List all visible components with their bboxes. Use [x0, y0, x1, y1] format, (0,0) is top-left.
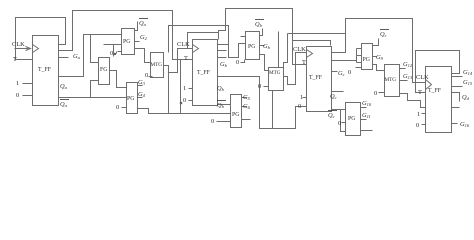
Peres gate PG2: [127, 83, 138, 114]
wire const1 input FF4: [422, 113, 426, 115]
wire branch to FG top input: [91, 35, 99, 63]
wire FF2 garbage stub: [218, 57, 227, 59]
svg-text:Qa: Qa: [60, 83, 68, 90]
wire FF3 out to PG6 mid: [341, 110, 346, 132]
svg-text:0: 0: [298, 103, 301, 110]
svg-text:FG: FG: [100, 67, 107, 73]
svg-text:Qa: Qa: [139, 20, 147, 27]
svg-text:T_FF: T_FF: [428, 88, 442, 94]
svg-text:Qa: Qa: [60, 101, 68, 108]
svg-text:T: T: [13, 56, 17, 63]
svg-text:PG: PG: [232, 112, 239, 118]
svg-text:0: 0: [110, 50, 113, 57]
Peres gate PG3: [246, 32, 260, 60]
wire FF2 T branch down to run: [180, 60, 182, 114]
wire FF2 Q long run to FF3 zero: [218, 77, 307, 129]
overline Qc bar: [328, 110, 337, 112]
svg-text:Gb: Gb: [263, 43, 271, 50]
svg-text:Qb: Qb: [217, 102, 225, 109]
svg-text:Gb: Gb: [220, 61, 228, 68]
wire FF3 to PG5 rail: [332, 49, 362, 63]
wire FF4 Q stub: [452, 93, 460, 108]
svg-text:G16: G16: [460, 121, 470, 128]
svg-text:Qd: Qd: [462, 94, 470, 101]
MTG gate MTG1: [151, 53, 164, 78]
svg-text:G4: G4: [138, 91, 146, 98]
svg-text:G12: G12: [403, 61, 413, 68]
wire PG1 out to Qbar label: [135, 22, 138, 31]
overline Qb bar: [217, 100, 226, 102]
overline PG1 Qbar: [139, 18, 148, 20]
wire const1 input FF2: [189, 88, 193, 90]
wire PG4 outputs stubs: [242, 98, 247, 107]
clock wedge U1: [33, 45, 39, 53]
wire loop top C inner: [293, 41, 331, 46]
wire PG5 out Qbar: [373, 39, 379, 46]
Peres gate PG5: [362, 44, 373, 70]
svg-text:G2: G2: [140, 34, 148, 41]
wire PG2 zero input: [122, 107, 127, 109]
Peres gate PG1: [122, 29, 135, 55]
wire FF4 garbage stubs: [452, 77, 463, 87]
wire FF2 Qbar to PG4: [218, 104, 231, 106]
wire FF1 Q to PG1: [59, 35, 122, 77]
T-flip-flop U1 body: [33, 36, 59, 106]
wire const0 input FF4: [422, 124, 426, 126]
wire PG4 zero input: [217, 121, 231, 123]
junction dot run y113: [180, 102, 183, 105]
wire T1 input: [16, 59, 33, 61]
wire PG1 input3 stub: [117, 52, 122, 54]
svg-text:PG: PG: [248, 44, 255, 50]
wire FG output to PG2: [110, 71, 127, 88]
svg-text:T_FF: T_FF: [38, 67, 52, 73]
wire MTG2 bottom drop: [272, 91, 274, 129]
svg-text:Qc: Qc: [330, 93, 337, 100]
svg-text:G3: G3: [138, 79, 146, 86]
junction dot PG1 feed: [114, 53, 116, 55]
svg-text:T_FF: T_FF: [309, 75, 323, 81]
svg-text:CLK: CLK: [293, 46, 306, 53]
wire FF1 pin to bitB long run: [59, 11, 193, 60]
wire PG5 zero input: [356, 67, 362, 69]
svg-text:1: 1: [16, 80, 19, 87]
svg-text:0: 0: [145, 72, 148, 79]
wire FF3 loop to bit D run: [332, 19, 426, 83]
svg-text:G9: G9: [376, 54, 384, 61]
svg-text:G14: G14: [463, 69, 473, 76]
wire PG2 outputs stubs: [138, 86, 143, 98]
wire branch to FG bottom input: [91, 81, 99, 98]
wire Qbar run to PG2: [59, 97, 127, 99]
svg-text:T_FF: T_FF: [197, 70, 211, 76]
wire FF2 zero to PG3: [241, 60, 245, 63]
overline Qa bar: [60, 99, 69, 101]
wire PG1 garbage stub: [135, 41, 140, 43]
svg-text:Qb: Qb: [255, 21, 263, 28]
wire MTG1 zero input: [149, 76, 153, 78]
wire const1 input FF3: [303, 97, 307, 99]
svg-text:G13: G13: [403, 73, 413, 80]
svg-text:1: 1: [417, 111, 420, 118]
wire loop to MTG2 top a: [278, 32, 280, 68]
wire FF3 garbage stub: [332, 71, 338, 73]
wire const1 input FF1: [23, 83, 33, 85]
svg-text:T: T: [418, 89, 422, 96]
wire PG4 out3 stub: [242, 119, 251, 121]
wire PG6 outputs stubs: [361, 108, 367, 120]
svg-text:G15: G15: [463, 79, 473, 86]
svg-text:MTG: MTG: [151, 62, 163, 68]
svg-text:G6: G6: [243, 103, 251, 110]
wire PG6 zero input: [342, 122, 346, 124]
wire PG1 input2 from FG top: [104, 45, 122, 57]
wire FF2 pin long top run to FF3 T: [218, 9, 307, 65]
clock wedge U3: [307, 50, 313, 58]
svg-text:MTG: MTG: [385, 77, 397, 83]
wire toggle feedback loop bit A: [16, 18, 66, 60]
wire CLK1 input: [15, 47, 31, 51]
svg-text:0: 0: [236, 59, 239, 66]
wire loop FF2 top to MTG1 top: [188, 33, 219, 49]
wire PG3 out to MTG2 top: [260, 55, 269, 71]
T-flip-flop U4 body: [426, 67, 452, 133]
svg-text:PG: PG: [348, 116, 355, 122]
svg-text:0: 0: [116, 104, 119, 111]
svg-text:Qc: Qc: [380, 31, 387, 38]
svg-text:G10: G10: [362, 100, 372, 107]
svg-text:G5: G5: [243, 94, 251, 101]
MTG gate MTG2: [269, 68, 284, 91]
svg-text:CLK: CLK: [416, 74, 429, 81]
svg-text:0: 0: [16, 92, 19, 99]
Peres gate PG4: [231, 95, 242, 128]
T-flip-flop U2 body: [193, 40, 218, 106]
wire MTG1 bottom to PG4 run: [168, 73, 170, 114]
wire PG5 out to MTG3: [373, 65, 385, 71]
wire MTG2 zero input: [264, 86, 269, 88]
wire garbage stub G1: [59, 57, 69, 59]
svg-text:0: 0: [374, 90, 377, 97]
wire MTG3 garbage stubs: [400, 69, 408, 81]
wire loop to MTG2 top b: [284, 34, 288, 68]
svg-text:MTG: MTG: [269, 70, 281, 76]
wire PG5 garbage stub: [373, 56, 377, 58]
T-flip-flop U3 body: [307, 47, 332, 112]
wire MTG3 out to CLK4: [400, 94, 426, 108]
svg-text:Ga: Ga: [73, 53, 81, 60]
svg-text:0: 0: [183, 97, 186, 104]
wire toggle loop bit D: [416, 51, 460, 93]
clock wedge U2: [193, 45, 199, 53]
svg-text:PG: PG: [123, 39, 130, 45]
wire FF3 Qbar to PG6: [332, 109, 346, 111]
wire PG2 out3 to PG4 long run: [138, 109, 231, 114]
svg-text:Gc: Gc: [338, 70, 345, 77]
svg-text:0: 0: [258, 83, 261, 90]
wire PG3 garbage stub: [260, 45, 265, 47]
Feynman gate FG1: [99, 58, 110, 85]
wire PG3 out Qbar: [260, 29, 263, 36]
Peres gate PG6: [346, 103, 361, 136]
wire const0 input FF2: [189, 100, 193, 102]
clock wedge U4: [426, 80, 432, 90]
svg-text:0: 0: [348, 69, 351, 76]
svg-text:Qc: Qc: [328, 112, 335, 119]
svg-text:0: 0: [338, 120, 341, 127]
svg-text:Qb: Qb: [217, 85, 225, 92]
wire PG3 input rail: [229, 37, 246, 58]
wire PG6 out3: [361, 130, 373, 132]
wire loop top C outer: [288, 33, 346, 35]
svg-text:1: 1: [183, 85, 186, 92]
wire MTG2 out to CLK3: [284, 53, 307, 85]
wire const0 input FF1: [23, 95, 33, 97]
svg-text:CLK: CLK: [177, 41, 190, 48]
wire MTG1 out to CLK2: [164, 49, 193, 73]
wire PG1 out to MTG1: [135, 49, 151, 63]
wire FF4 garbage bottom stub: [452, 123, 458, 125]
wire loop FF2 pin to MTG1 top: [169, 26, 229, 53]
svg-text:T: T: [184, 55, 188, 62]
svg-text:0: 0: [211, 118, 214, 125]
svg-text:T: T: [302, 59, 306, 66]
svg-text:PG: PG: [363, 57, 370, 63]
svg-text:1: 1: [300, 94, 303, 101]
svg-text:CLK: CLK: [12, 41, 25, 48]
overline PG3 Qbar: [255, 19, 264, 21]
svg-text:G11: G11: [362, 112, 371, 119]
svg-text:PG: PG: [127, 96, 134, 102]
overline PG5 Qbar: [380, 29, 389, 31]
svg-text:0: 0: [416, 122, 419, 129]
wire MTG3 zero input: [379, 92, 385, 94]
wire FF3 Q stub: [332, 91, 344, 93]
MTG gate MTG3: [385, 65, 400, 97]
